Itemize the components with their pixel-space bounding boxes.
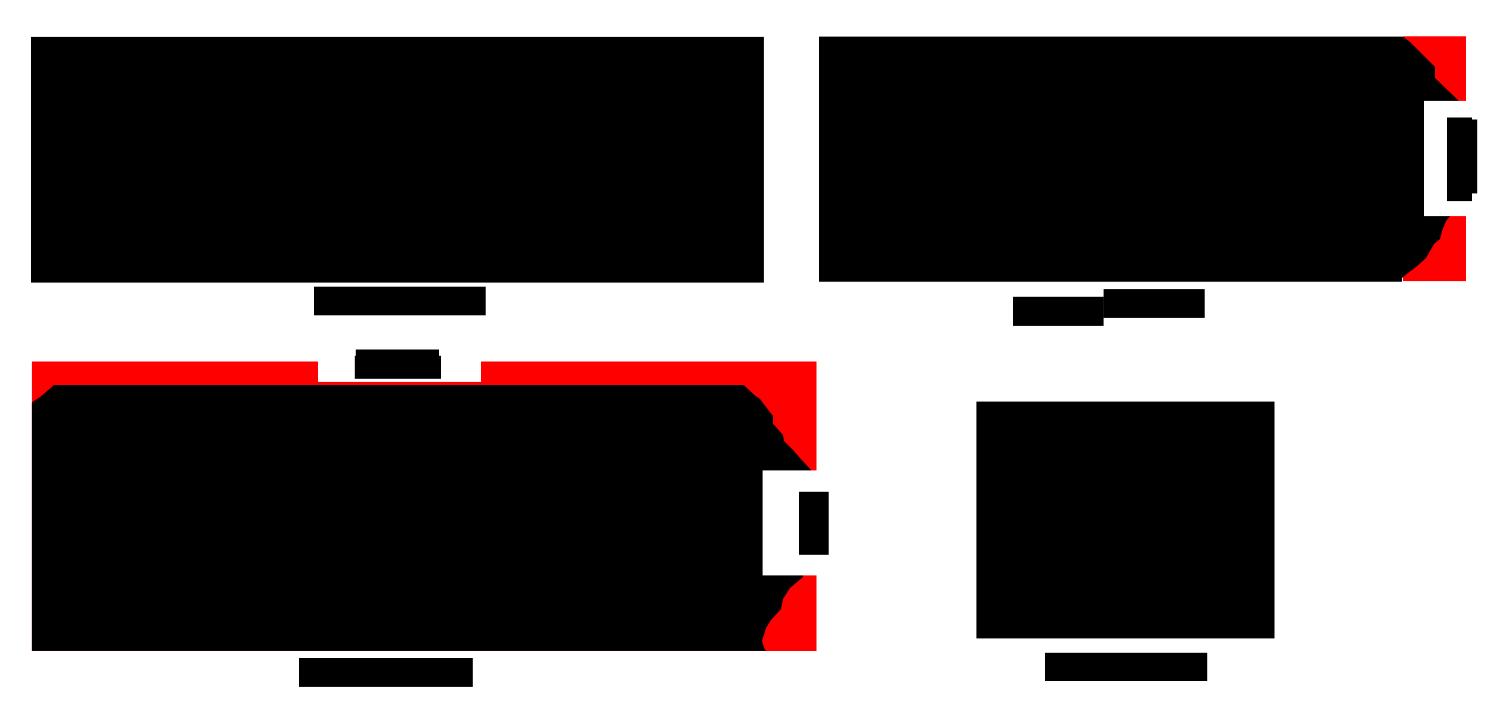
battery B terminal notch (white) (1424, 101, 1500, 216)
battery figure B red backing (1403, 36, 1466, 281)
caption bar C (299, 658, 473, 687)
battery C legend gap (white) (318, 356, 481, 382)
caption bar B right word (1104, 289, 1205, 318)
battery C terminal notch (white) (763, 470, 830, 575)
battery figure B black body (819, 37, 1461, 282)
caption bar A (314, 287, 486, 316)
battery figure C red backing / border band (32, 362, 817, 652)
battery figure D black body (976, 402, 1274, 639)
battery C legend label box (355, 356, 441, 379)
caption bar B left word (1013, 297, 1104, 326)
battery figure C black body (32, 385, 811, 651)
battery C legend label top step (356, 350, 439, 357)
battery B terminal nub step (1454, 120, 1477, 194)
battery C terminal nub (799, 492, 829, 555)
battery figure A black body (31, 37, 764, 283)
caption bar D (1045, 653, 1207, 681)
battery B terminal nub (1447, 118, 1472, 202)
